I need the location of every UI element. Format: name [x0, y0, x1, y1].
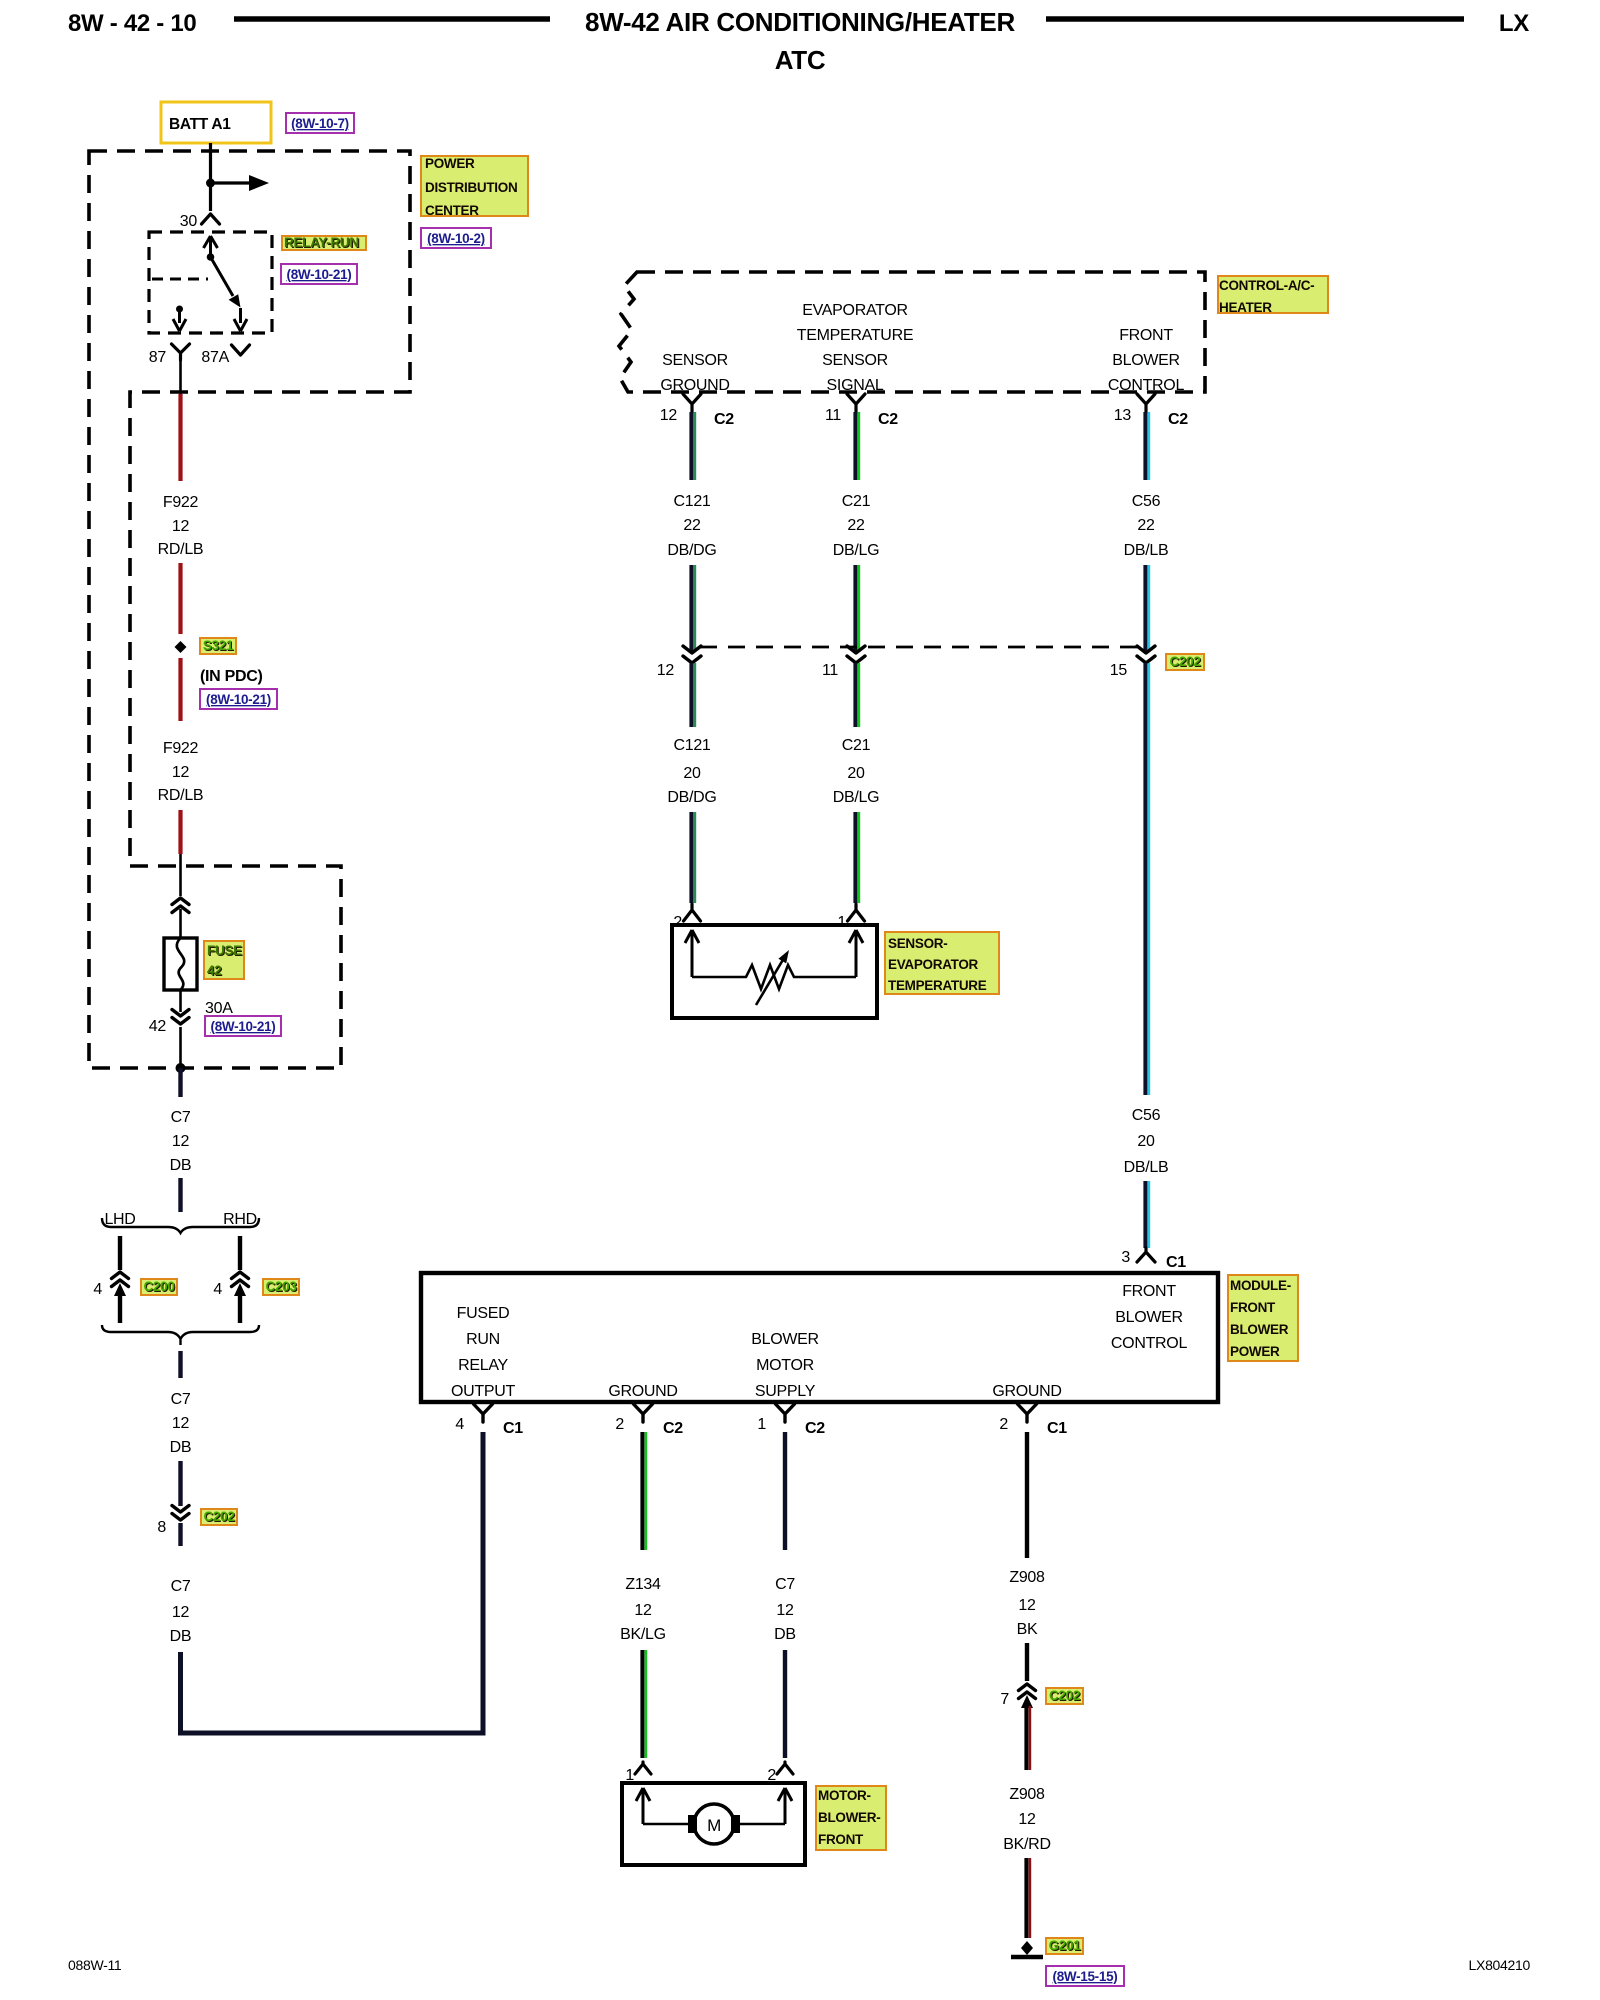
pin 3 C1 connector — [1137, 1248, 1155, 1262]
label POWER DISTRIBUTION CENTER — [421, 156, 528, 216]
svg-text:12: 12 — [634, 1602, 652, 1619]
svg-text:088W-11: 088W-11 — [68, 1957, 122, 1973]
svg-text:M: M — [707, 1816, 721, 1835]
wire C56 22 DB/LB seg1 — [1143, 412, 1147, 480]
svg-text:CONTROL-A/C-: CONTROL-A/C- — [1219, 278, 1314, 293]
relay coil dashed bar — [152, 278, 208, 281]
label MODULE-FRONT BLOWER POWER — [1228, 1275, 1298, 1361]
connector into PDC lower (chevrons) — [172, 898, 189, 905]
svg-text:FUSE: FUSE — [207, 943, 242, 958]
svg-text:22: 22 — [683, 517, 701, 534]
svg-text:12: 12 — [172, 1604, 190, 1621]
svg-text:(8W-10-21): (8W-10-21) — [287, 267, 352, 282]
wire Z908 12 BK/RD seg1 — [1024, 1706, 1028, 1770]
connector C202 pin 12 — [683, 646, 701, 653]
link 8W-10-2 — [421, 228, 491, 248]
wire C7 L-run to module — [181, 1432, 484, 1733]
pin 2 sensor connector — [684, 904, 701, 921]
RHD branch wire — [238, 1236, 242, 1270]
svg-text:2: 2 — [615, 1416, 624, 1433]
LHD/RHD split brace — [102, 1218, 259, 1233]
svg-text:F922: F922 — [163, 740, 199, 757]
wire battery to relay pin 30 — [209, 143, 212, 211]
wire F922 seg1 (RD/LB) — [178, 394, 182, 481]
svg-text:SENSOR: SENSOR — [662, 352, 728, 369]
svg-text:BK/LG: BK/LG — [620, 1626, 666, 1643]
wire F922 seg4 — [178, 810, 182, 854]
label SENSOR-EVAPORATOR TEMPERATURE — [885, 932, 999, 994]
svg-text:4: 4 — [213, 1281, 222, 1298]
svg-text:C56: C56 — [1132, 1107, 1161, 1124]
svg-text:30A: 30A — [205, 1000, 233, 1017]
svg-text:RD/LB: RD/LB — [158, 787, 204, 804]
svg-text:LX804210: LX804210 — [1469, 1957, 1531, 1973]
svg-text:HEATER: HEATER — [1219, 300, 1272, 315]
ground G201 — [1021, 1941, 1033, 1955]
svg-text:BLOWER-: BLOWER- — [818, 1810, 880, 1825]
module pin 1 C2 — [776, 1404, 795, 1422]
svg-text:G201: G201 — [1049, 1938, 1082, 1953]
svg-text:1: 1 — [757, 1416, 766, 1433]
relay armature arrow — [211, 257, 234, 296]
header rule right — [1046, 16, 1464, 22]
connector C202 pin 7 — [1019, 1684, 1036, 1691]
wire C7 seg2 — [178, 1351, 182, 1378]
svg-text:C2: C2 — [805, 1420, 825, 1437]
svg-text:4: 4 — [93, 1281, 102, 1298]
svg-text:GROUND: GROUND — [992, 1383, 1061, 1400]
link 8W-10-21 (fuse) — [205, 1016, 281, 1036]
svg-text:LX: LX — [1499, 10, 1529, 37]
module pin 2 C1 — [1018, 1404, 1037, 1422]
svg-text:C2: C2 — [663, 1420, 683, 1437]
svg-text:SUPPLY: SUPPLY — [755, 1383, 816, 1400]
wire C121 20 DB/DG seg2 — [689, 663, 693, 727]
svg-text:1: 1 — [837, 914, 846, 931]
module-front blower power box — [421, 1273, 1218, 1402]
svg-text:SENSOR: SENSOR — [822, 352, 888, 369]
svg-text:C202: C202 — [203, 1509, 234, 1524]
svg-text:C1: C1 — [503, 1420, 523, 1437]
svg-text:DB: DB — [170, 1628, 192, 1645]
svg-text:12: 12 — [172, 1133, 190, 1150]
svg-text:BLOWER: BLOWER — [1230, 1322, 1289, 1337]
svg-text:BK: BK — [1017, 1621, 1038, 1638]
svg-text:Z908: Z908 — [1009, 1569, 1045, 1586]
svg-text:22: 22 — [847, 517, 865, 534]
svg-text:3: 3 — [1121, 1249, 1130, 1266]
junction dot — [206, 179, 215, 188]
svg-text:C2: C2 — [1168, 411, 1188, 428]
svg-text:OUTPUT: OUTPUT — [451, 1383, 516, 1400]
svg-text:DB/DG: DB/DG — [667, 542, 716, 559]
power distribution center outline — [89, 151, 410, 1068]
svg-text:CONTROL: CONTROL — [1111, 1335, 1188, 1352]
relay N.C. contact (to 87) — [176, 306, 183, 313]
svg-text:C121: C121 — [673, 493, 710, 510]
junction at PDC exit — [176, 1063, 186, 1073]
relay output arrow (to 87A) — [239, 308, 242, 323]
svg-text:Z134: Z134 — [625, 1576, 661, 1593]
svg-text:12: 12 — [172, 764, 190, 781]
svg-text:2: 2 — [999, 1416, 1008, 1433]
control-a/c-heater outline — [619, 272, 1205, 392]
wire F922 seg2 — [178, 563, 182, 634]
svg-text:12: 12 — [657, 662, 675, 679]
variable arrow — [756, 958, 784, 1005]
svg-text:POWER: POWER — [1230, 1344, 1280, 1359]
svg-text:42: 42 — [207, 963, 221, 978]
label RELAY-RUN — [282, 236, 366, 250]
svg-text:C202: C202 — [1049, 1688, 1080, 1703]
svg-text:CENTER: CENTER — [425, 203, 479, 218]
svg-text:30: 30 — [180, 213, 198, 230]
svg-text:BATT A1: BATT A1 — [169, 116, 231, 133]
svg-text:TEMPERATURE: TEMPERATURE — [888, 978, 987, 993]
motor terminal arrows — [636, 1788, 650, 1824]
svg-text:BLOWER: BLOWER — [751, 1331, 819, 1348]
wire C7 DB seg1 — [178, 1068, 182, 1097]
svg-text:2: 2 — [673, 914, 682, 931]
svg-text:15: 15 — [1110, 662, 1128, 679]
svg-text:DB/DG: DB/DG — [667, 789, 716, 806]
svg-text:DB/LB: DB/LB — [1124, 1159, 1169, 1176]
svg-text:C1: C1 — [1047, 1420, 1067, 1437]
pin 42 connector (chevrons down) — [172, 1010, 189, 1017]
svg-text:RHD: RHD — [223, 1211, 257, 1228]
wire C7 12 DB to motor — [783, 1432, 787, 1550]
svg-text:20: 20 — [1137, 1133, 1155, 1150]
C202 in-line connector dashed line — [700, 646, 1140, 649]
svg-text:EVAPORATOR: EVAPORATOR — [802, 302, 907, 319]
pin 11 C2 connector — [847, 394, 865, 412]
pin 87 connector — [172, 344, 190, 360]
svg-text:GROUND: GROUND — [660, 377, 729, 394]
svg-text:12: 12 — [172, 1415, 190, 1432]
sensor-evaporator temperature box — [672, 925, 877, 1018]
svg-text:(8W-10-2): (8W-10-2) — [427, 231, 485, 246]
svg-text:DB/LB: DB/LB — [1124, 542, 1169, 559]
svg-text:C200: C200 — [143, 1279, 174, 1294]
svg-text:8W - 42 - 10: 8W - 42 - 10 — [68, 10, 196, 37]
svg-text:FRONT: FRONT — [1230, 1300, 1276, 1315]
svg-text:RELAY-RUN: RELAY-RUN — [284, 235, 359, 250]
svg-text:C56: C56 — [1132, 493, 1161, 510]
svg-text:LHD: LHD — [104, 1211, 135, 1228]
svg-text:MODULE-: MODULE- — [1230, 1278, 1291, 1293]
svg-text:FRONT: FRONT — [1122, 1283, 1176, 1300]
svg-text:RELAY: RELAY — [458, 1357, 508, 1374]
battery feed BATT A1 — [161, 102, 271, 143]
svg-text:12: 12 — [776, 1602, 794, 1619]
wire Z134 12 BK/LG — [640, 1432, 644, 1550]
svg-text:20: 20 — [847, 765, 865, 782]
wire C21 20 DB/LG seg2 — [853, 663, 857, 727]
svg-text:8W-42 AIR CONDITIONING/HEATER: 8W-42 AIR CONDITIONING/HEATER — [585, 7, 1015, 37]
svg-text:C21: C21 — [842, 493, 871, 510]
svg-text:C7: C7 — [775, 1576, 795, 1593]
pin 30 connector — [202, 214, 220, 224]
connector C202 pin 15 — [1137, 646, 1155, 653]
svg-text:SENSOR-: SENSOR- — [888, 936, 947, 951]
svg-text:(8W-15-15): (8W-15-15) — [1053, 1969, 1118, 1984]
thermistor element — [692, 965, 856, 989]
motor M — [643, 1823, 692, 1826]
svg-text:MOTOR: MOTOR — [756, 1357, 814, 1374]
svg-text:DISTRIBUTION: DISTRIBUTION — [425, 180, 517, 195]
pin 1 sensor connector — [848, 904, 865, 921]
svg-text:8: 8 — [157, 1519, 166, 1536]
svg-text:RUN: RUN — [466, 1331, 500, 1348]
svg-text:BLOWER: BLOWER — [1115, 1309, 1183, 1326]
svg-text:DB/LG: DB/LG — [833, 789, 880, 806]
svg-text:12: 12 — [660, 407, 678, 424]
svg-text:12: 12 — [172, 518, 190, 535]
motor pin 2 connector — [777, 1762, 793, 1774]
svg-text:C203: C203 — [265, 1279, 297, 1294]
LHD branch wire — [118, 1236, 122, 1270]
svg-text:TEMPERATURE: TEMPERATURE — [797, 327, 913, 344]
relay RELAY-RUN box — [149, 232, 272, 333]
svg-text:GROUND: GROUND — [608, 1383, 677, 1400]
pin 12 C2 connector — [683, 394, 701, 412]
wire Z908 12 BK — [1025, 1432, 1029, 1558]
svg-text:ATC: ATC — [775, 45, 826, 75]
svg-text:7: 7 — [1000, 1691, 1009, 1708]
svg-text:11: 11 — [825, 407, 841, 424]
svg-text:DB: DB — [170, 1439, 192, 1456]
motor pin 1 connector — [635, 1762, 651, 1774]
link 8W-10-7 — [286, 113, 354, 133]
svg-text:13: 13 — [1114, 407, 1132, 424]
wire fuse to pin 42 — [179, 990, 182, 1012]
module pin 2 C2 — [634, 1404, 653, 1422]
fuse 42 body — [164, 938, 197, 990]
svg-text:C2: C2 — [714, 411, 734, 428]
wire C121 22 DB/DG seg1 — [689, 412, 693, 480]
svg-text:42: 42 — [149, 1018, 167, 1035]
svg-text:Z908: Z908 — [1009, 1786, 1045, 1803]
svg-text:C7: C7 — [171, 1578, 191, 1595]
svg-text:C121: C121 — [673, 737, 710, 754]
svg-text:DB: DB — [170, 1157, 192, 1174]
svg-text:POWER: POWER — [425, 156, 475, 171]
svg-text:87A: 87A — [201, 349, 229, 366]
wire C21 22 DB/LG seg1 — [853, 412, 857, 480]
svg-text:(IN PDC): (IN PDC) — [200, 668, 262, 685]
svg-text:12: 12 — [1018, 1811, 1036, 1828]
svg-text:(8W-10-7): (8W-10-7) — [291, 116, 349, 131]
svg-text:EVAPORATOR: EVAPORATOR — [888, 957, 979, 972]
connector C202 pin 8 — [172, 1506, 189, 1513]
link 8W-10-21 (splice) — [200, 689, 277, 709]
svg-text:20: 20 — [683, 765, 701, 782]
relay common contact arrow (pin 30) — [204, 236, 218, 256]
svg-text:22: 22 — [1137, 517, 1155, 534]
svg-text:87: 87 — [149, 349, 167, 366]
svg-text:C7: C7 — [171, 1391, 191, 1408]
svg-text:(8W-10-21): (8W-10-21) — [211, 1019, 276, 1034]
link 8W-10-21 — [281, 264, 357, 284]
connector C203 — [232, 1272, 249, 1279]
svg-text:CONTROL: CONTROL — [1108, 377, 1185, 394]
svg-text:F922: F922 — [163, 494, 199, 511]
svg-text:(8W-10-21): (8W-10-21) — [206, 692, 271, 707]
svg-text:11: 11 — [822, 662, 838, 679]
svg-text:BK/RD: BK/RD — [1003, 1836, 1050, 1853]
pin 13 C2 connector — [1137, 394, 1155, 412]
connector C202 pin 11 — [847, 646, 865, 653]
header rule left — [234, 16, 550, 22]
svg-text:DB: DB — [774, 1626, 796, 1643]
svg-text:RD/LB: RD/LB — [158, 541, 204, 558]
wire 87 down — [179, 360, 182, 394]
svg-text:DB/LG: DB/LG — [833, 542, 880, 559]
svg-text:BLOWER: BLOWER — [1112, 352, 1180, 369]
svg-text:C1: C1 — [1166, 1254, 1186, 1271]
wire C56 20 DB/LB long run — [1143, 663, 1147, 1095]
svg-text:S321: S321 — [203, 638, 234, 653]
label FUSE 42 — [204, 941, 244, 979]
pin 87A connector — [232, 345, 250, 355]
svg-text:12: 12 — [1018, 1597, 1036, 1614]
motor-blower-front box — [622, 1783, 805, 1865]
link 8W-15-15 — [1046, 1966, 1124, 1986]
svg-text:C202: C202 — [1169, 654, 1200, 669]
svg-text:C2: C2 — [878, 411, 898, 428]
label CONTROL-A/C-HEATER — [1218, 276, 1328, 313]
svg-text:FUSED: FUSED — [457, 1305, 510, 1322]
wire into fuse — [179, 854, 182, 896]
svg-text:SIGNAL: SIGNAL — [827, 377, 884, 394]
svg-text:C7: C7 — [171, 1109, 191, 1126]
connector C200 — [112, 1272, 129, 1279]
svg-text:FRONT: FRONT — [818, 1832, 864, 1847]
label MOTOR-BLOWER-FRONT — [816, 1786, 886, 1850]
svg-text:MOTOR-: MOTOR- — [818, 1788, 871, 1803]
svg-text:FRONT: FRONT — [1119, 327, 1173, 344]
sensor terminal arrows — [685, 930, 699, 977]
splice S321 — [175, 641, 187, 653]
branch arrow to other circuits — [211, 181, 255, 184]
wire F922 seg3 — [178, 658, 182, 721]
merge brace — [102, 1325, 259, 1345]
svg-text:4: 4 — [455, 1416, 464, 1433]
module pin 4 C1 — [474, 1404, 493, 1422]
svg-text:C21: C21 — [842, 737, 871, 754]
